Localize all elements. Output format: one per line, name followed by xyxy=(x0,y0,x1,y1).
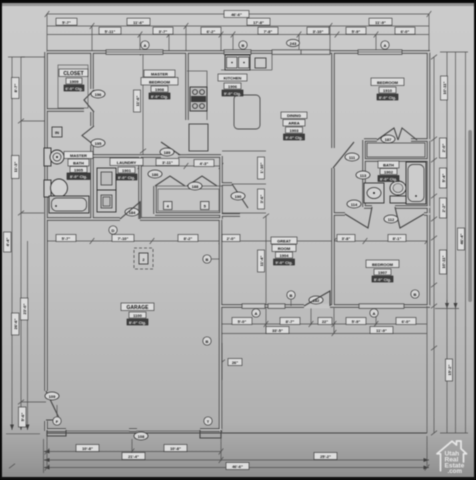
svg-text:6'-0" Clg.: 6'-0" Clg. xyxy=(65,86,82,91)
callout circle B garage wall xyxy=(203,337,211,345)
window great room bottom 2 xyxy=(268,304,285,309)
svg-text:10'-11": 10'-11" xyxy=(442,81,447,94)
svg-text:8'-0" Clg.: 8'-0" Clg. xyxy=(151,94,168,99)
svg-text:10'-8": 10'-8" xyxy=(82,446,93,451)
master bath door angled xyxy=(82,126,94,145)
svg-text:189: 189 xyxy=(164,150,171,155)
svg-text:112: 112 xyxy=(388,217,395,222)
door tag 109 xyxy=(45,392,59,400)
svg-text:MASTER: MASTER xyxy=(70,153,87,158)
svg-text:33'-5": 33'-5" xyxy=(272,328,283,333)
door tag 188 xyxy=(188,182,202,190)
svg-text:BATH: BATH xyxy=(73,161,84,166)
right dim label 10'-11" xyxy=(441,76,448,100)
svg-text:3'-10": 3'-10" xyxy=(313,29,324,34)
svg-text:25'-2": 25'-2" xyxy=(320,454,331,459)
svg-text:22": 22" xyxy=(322,319,328,324)
laundry washer dryer xyxy=(97,168,116,212)
svg-text:8'-7": 8'-7" xyxy=(13,84,18,93)
svg-text:17'-8": 17'-8" xyxy=(253,20,264,25)
svg-text:114: 114 xyxy=(351,202,358,207)
label BEDROOM 2 xyxy=(366,260,399,282)
svg-text:8'-0" Clg.: 8'-0" Clg. xyxy=(374,277,391,282)
svg-text:LAUNDRY: LAUNDRY xyxy=(117,160,137,165)
right dim label 5'-4" xyxy=(440,168,447,188)
svg-text:1907: 1907 xyxy=(378,270,388,275)
master bath linen xyxy=(52,127,62,137)
left dim label 5'-6" xyxy=(19,407,27,427)
svg-text:11'-6": 11'-6" xyxy=(135,96,140,107)
bedroom1 door swing xyxy=(333,142,354,168)
wall dark band pass xyxy=(46,52,430,432)
svg-text:196: 196 xyxy=(95,92,102,97)
kitchen right counter edge xyxy=(271,52,273,70)
svg-text:B: B xyxy=(206,257,209,262)
door tag 184 xyxy=(125,208,139,216)
callout circle D xyxy=(109,226,117,234)
svg-text:21'-4": 21'-4" xyxy=(128,454,139,459)
svg-text:6'-0": 6'-0" xyxy=(401,29,410,34)
svg-text:1904: 1904 xyxy=(280,253,290,258)
patio door opening great room xyxy=(304,304,330,309)
door tag 111 xyxy=(345,153,359,161)
extension lines from top wall up to dims xyxy=(47,14,429,52)
svg-text:A: A xyxy=(255,311,258,316)
master bedroom interior vertical dim xyxy=(134,51,147,156)
svg-text:5'-4": 5'-4" xyxy=(441,174,446,183)
svg-text:8'-0" Clg.: 8'-0" Clg. xyxy=(129,320,146,325)
door tag 195 xyxy=(91,139,105,147)
label LAUNDRY xyxy=(110,158,143,180)
bath2 sink counter xyxy=(364,183,384,203)
bath2 toilet xyxy=(390,181,406,203)
garage bottom sill left door xyxy=(66,430,130,432)
svg-text:GREAT: GREAT xyxy=(277,239,291,244)
svg-text:IN: IN xyxy=(55,130,59,135)
svg-text:4'-4": 4'-4" xyxy=(5,238,10,247)
callout circle B top middle xyxy=(239,41,247,49)
hall closet tag B box xyxy=(201,202,210,210)
svg-text:D: D xyxy=(112,228,115,233)
svg-text:10'-8": 10'-8" xyxy=(170,446,181,451)
svg-text:108: 108 xyxy=(138,434,145,439)
dishwasher xyxy=(255,58,266,68)
window dining top xyxy=(272,50,330,55)
left dim label 23'-0" xyxy=(21,298,29,320)
callout circle F garage left xyxy=(53,405,61,425)
svg-text:46'-4": 46'-4" xyxy=(459,233,464,244)
door tag 112 xyxy=(384,215,398,223)
svg-text:6'-0": 6'-0" xyxy=(402,319,411,324)
kitchen fridge xyxy=(189,124,208,151)
svg-text:113: 113 xyxy=(360,173,367,178)
svg-text:8'-2": 8'-2" xyxy=(184,236,193,241)
svg-text:3'-7": 3'-7" xyxy=(159,29,168,34)
label CLOSET xyxy=(59,69,88,91)
callout circle D garage right w/ leader xyxy=(203,255,221,263)
label GREAT ROOM xyxy=(271,237,297,265)
patio right edge xyxy=(426,306,428,433)
svg-text:46'-6": 46'-6" xyxy=(231,12,242,17)
callout circle T garage xyxy=(204,417,212,425)
svg-text:190: 190 xyxy=(235,194,242,199)
scrollbar thumb right edge xyxy=(468,130,472,302)
svg-text:188: 188 xyxy=(192,184,199,189)
master bath toilet xyxy=(44,179,68,197)
svg-text:BEDROOM: BEDROOM xyxy=(372,262,394,267)
svg-text:2'-0": 2'-0" xyxy=(227,236,236,241)
wall light core pass xyxy=(46,52,430,432)
svg-text:1908: 1908 xyxy=(155,87,165,92)
left dim label 8'-7" xyxy=(12,78,20,99)
svg-text:ROOM: ROOM xyxy=(278,246,291,251)
window master bedroom top xyxy=(106,50,163,55)
bottom black edge xyxy=(0,477,476,480)
garage dashed post xyxy=(134,248,153,269)
svg-text:46'-6": 46'-6" xyxy=(232,464,243,469)
svg-text:1100: 1100 xyxy=(133,313,142,318)
svg-text:243: 243 xyxy=(290,41,297,46)
garage bottom step right xyxy=(200,430,221,438)
svg-text:23'-0": 23'-0" xyxy=(22,303,27,314)
dim line overall top xyxy=(45,11,432,18)
dim row 3 xyxy=(47,27,429,37)
closet inner shelf rect xyxy=(58,65,88,108)
svg-text:2'-0": 2'-0" xyxy=(441,144,446,153)
svg-text:BEDROOM: BEDROOM xyxy=(377,80,399,85)
svg-text:8'-0" Clg.: 8'-0" Clg. xyxy=(118,175,135,180)
svg-text:1910: 1910 xyxy=(383,88,393,93)
door tag 190 xyxy=(231,192,245,200)
window great room bottom 1 xyxy=(242,304,265,309)
label BEDROOM top right xyxy=(371,78,404,100)
svg-text:4'-3": 4'-3" xyxy=(200,161,209,166)
svg-text:7'-10": 7'-10" xyxy=(118,236,129,241)
svg-text:11'-9": 11'-9" xyxy=(375,20,386,25)
svg-text:9'-0" Clg.: 9'-0" Clg. xyxy=(285,135,302,140)
door tag 196 xyxy=(91,90,105,98)
label MASTER BEDROOM xyxy=(141,70,178,99)
svg-text:BEDROOM: BEDROOM xyxy=(149,80,171,85)
master bedroom door swing xyxy=(161,142,180,155)
window bedroom1 top xyxy=(358,50,402,55)
svg-text:5'-6": 5'-6" xyxy=(20,413,25,422)
svg-text:1901: 1901 xyxy=(122,168,132,173)
svg-text:10'-11": 10'-11" xyxy=(441,255,446,268)
door tag 182 xyxy=(309,296,323,304)
label GARAGE xyxy=(121,303,154,325)
patio bottom edge / house base line xyxy=(47,432,427,434)
svg-text:26'-6": 26'-6" xyxy=(13,318,18,329)
svg-text:11'-4": 11'-4" xyxy=(259,256,264,267)
label BATH xyxy=(378,161,399,182)
window bedroom2 bottom xyxy=(359,304,404,309)
front door swing triangle xyxy=(120,202,140,219)
svg-text:8'-1": 8'-1" xyxy=(393,236,402,241)
svg-text:111: 111 xyxy=(349,155,356,160)
hall closet bifold doors xyxy=(155,176,185,186)
svg-text:A: A xyxy=(144,43,147,48)
left outer dim lines xyxy=(6,57,47,468)
bath2 tub xyxy=(406,162,426,204)
kitchen range xyxy=(190,87,207,111)
right dim label 46'-4" xyxy=(458,228,465,250)
svg-text:DINING: DINING xyxy=(287,113,301,118)
svg-text:.com: .com xyxy=(448,468,463,475)
svg-text:3'-11": 3'-11" xyxy=(162,160,173,165)
garage bottom sill right door xyxy=(136,430,200,432)
svg-text:2'-2": 2'-2" xyxy=(441,204,446,213)
kitchen island xyxy=(234,95,260,129)
svg-text:MASTER: MASTER xyxy=(151,72,168,77)
svg-text:5'-7": 5'-7" xyxy=(62,236,71,241)
svg-text:A: A xyxy=(384,43,387,48)
right dim label 10'-11" lower xyxy=(440,250,447,274)
left black edge xyxy=(0,0,2,480)
callout circle A bottom left of great room xyxy=(252,309,260,317)
svg-text:9'-0" Clg.: 9'-0" Clg. xyxy=(275,260,292,265)
svg-text:186: 186 xyxy=(152,172,159,177)
svg-text:8'-0" Clg.: 8'-0" Clg. xyxy=(70,174,87,179)
svg-text:A: A xyxy=(373,311,376,316)
door tag 108 xyxy=(134,432,148,440)
label DINING AREA xyxy=(281,112,307,140)
bedroom1 closet shelf box xyxy=(367,143,425,157)
master bath tub xyxy=(49,196,89,213)
right black edge xyxy=(474,0,476,480)
closet door angled xyxy=(84,90,94,112)
svg-text:109: 109 xyxy=(49,394,56,399)
left dim label 26'-6" xyxy=(12,313,20,335)
svg-text:3'-8": 3'-8" xyxy=(342,236,351,241)
pantry door angled xyxy=(232,184,248,208)
bedroom1 closet bifold doors xyxy=(377,128,398,140)
callout circle B bedroom2 xyxy=(411,290,419,298)
right dim label 2'-0" xyxy=(440,138,447,158)
svg-text:1'-10": 1'-10" xyxy=(259,162,264,173)
svg-text:CLOSET: CLOSET xyxy=(63,71,83,77)
left dim label 11'-3" xyxy=(12,156,20,179)
svg-text:1909: 1909 xyxy=(70,79,80,84)
door tag 186 xyxy=(148,170,162,178)
svg-text:B: B xyxy=(206,339,209,344)
svg-text:AREA: AREA xyxy=(288,121,299,126)
dining interior vertical dims xyxy=(222,151,266,213)
door tag 187 xyxy=(381,135,395,143)
patio door swing xyxy=(304,291,330,306)
window kitchen top xyxy=(224,50,251,55)
garage 26" tick right side xyxy=(219,343,242,380)
kitchen top counter front edge xyxy=(221,69,272,71)
hall closet tag A box xyxy=(164,202,173,210)
dim row 2 xyxy=(47,18,429,29)
door tag 114 xyxy=(347,200,361,208)
svg-text:15'-2": 15'-2" xyxy=(447,364,452,375)
svg-text:7'-8": 7'-8" xyxy=(264,29,273,34)
svg-text:11'-9": 11'-9" xyxy=(376,328,387,333)
svg-text:1905: 1905 xyxy=(74,168,84,173)
callout circle A bottom bedroom 2 xyxy=(370,309,378,317)
kitchen sink double basin xyxy=(225,55,250,70)
bottom extension lines xyxy=(47,436,427,466)
label MASTER BATH xyxy=(64,152,93,180)
watermark logo UtahRealEstate.com xyxy=(437,441,467,475)
svg-text:BATH: BATH xyxy=(383,163,394,168)
svg-text:1903: 1903 xyxy=(290,128,300,133)
svg-text:5'-9": 5'-9" xyxy=(352,319,361,324)
bedroom2 door swing peaks xyxy=(345,207,372,228)
svg-text:1902: 1902 xyxy=(384,170,394,175)
callout circle A top left xyxy=(141,41,149,49)
left dim label 4'-4" xyxy=(4,232,12,252)
garage bottom step left xyxy=(47,430,66,436)
svg-text:8'-7": 8'-7" xyxy=(286,319,295,324)
window tag oval 243 xyxy=(287,39,300,46)
door tag 113 xyxy=(356,171,370,179)
svg-text:26": 26" xyxy=(232,360,238,365)
top black edge xyxy=(0,0,476,3)
svg-text:B: B xyxy=(290,293,293,298)
svg-text:B: B xyxy=(242,43,245,48)
svg-text:GARAGE: GARAGE xyxy=(127,305,150,311)
svg-text:3'-6": 3'-6" xyxy=(259,195,264,204)
svg-text:187: 187 xyxy=(385,137,392,142)
svg-text:KITCHEN: KITCHEN xyxy=(224,76,242,81)
svg-text:5'-7": 5'-7" xyxy=(62,20,71,25)
label KITCHEN xyxy=(218,74,247,96)
svg-text:11'-6": 11'-6" xyxy=(133,20,144,25)
svg-text:5'-11": 5'-11" xyxy=(105,29,116,34)
callout circle A top right xyxy=(381,41,389,49)
svg-text:195: 195 xyxy=(95,141,102,146)
right dim label 15'-2" xyxy=(446,359,453,381)
svg-text:5'-9": 5'-9" xyxy=(352,29,361,34)
svg-text:6'-2": 6'-2" xyxy=(207,29,216,34)
svg-text:11'-3": 11'-3" xyxy=(13,162,18,173)
svg-text:8'-0" Clg.: 8'-0" Clg. xyxy=(379,95,396,100)
svg-text:9'-0" Clg.: 9'-0" Clg. xyxy=(224,91,241,96)
door tag 189 xyxy=(160,148,174,156)
hall closet inner shelf line xyxy=(158,189,219,211)
garage left service door swing xyxy=(46,391,60,420)
callout circle B great room xyxy=(287,291,295,306)
svg-text:B: B xyxy=(414,292,417,297)
svg-text:8'-0" Clg.: 8'-0" Clg. xyxy=(380,177,397,182)
master bath sink xyxy=(44,148,64,166)
svg-text:5'-0": 5'-0" xyxy=(238,319,247,324)
kitchen counter edge xyxy=(187,71,207,120)
right dim label 2'-2" xyxy=(440,198,447,218)
svg-text:1906: 1906 xyxy=(228,84,238,89)
